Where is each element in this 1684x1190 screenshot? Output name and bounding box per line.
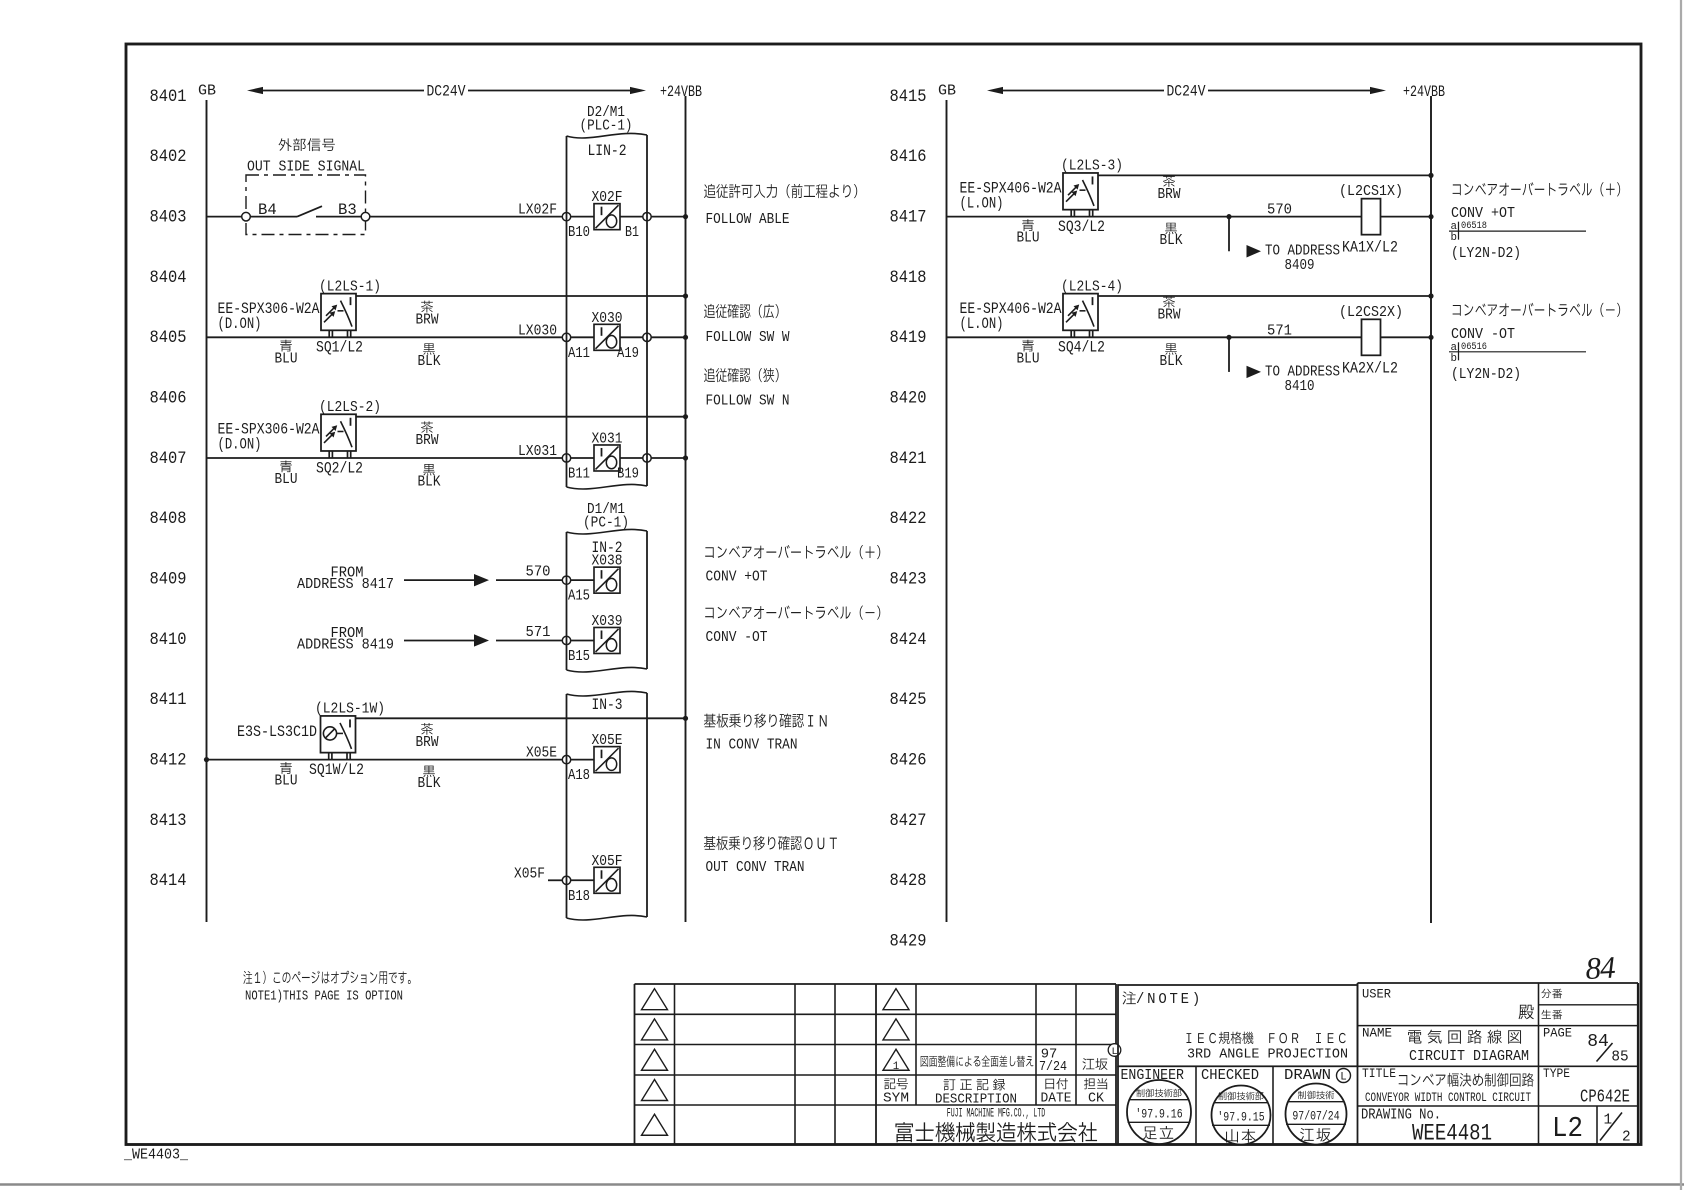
svg-text:DC24V: DC24V [1167,83,1207,101]
relay coil KA2X/L2 (L2CS2X) [1362,319,1381,355]
revision tables top edge [635,983,1117,985]
description 追従確認(広) [704,304,779,318]
junction upper wire on rail [683,414,688,419]
svg-text:FOLLOW SW W: FOLLOW SW W [706,329,790,346]
contact B4-B3 outside signal [242,201,370,221]
svg-text:B10: B10 [568,224,590,241]
stamp DRAWN 江坂 [1286,1084,1347,1145]
signature block outline [1118,1066,1358,1144]
header 記号 SYM [884,1078,908,1089]
svg-text:BLK: BLK [418,775,441,792]
svg-text:(LY2N-D2): (LY2N-D2) [1451,245,1521,262]
description 基板乗り移り確認OUT [704,836,837,850]
svg-text:L: L [1111,1047,1117,1058]
svg-text:NAME: NAME [1362,1026,1392,1041]
svg-text:DATE: DATE [1041,1092,1072,1107]
wire color label brown row 8412 [421,723,433,735]
scan artifact right edge grey line [1680,0,1682,1190]
wire 8407 GB rail to sensor [207,457,563,459]
svg-text:CP642E: CP642E [1580,1088,1630,1108]
svg-text:X05E: X05E [526,745,557,762]
wire coil to +24VBB rail 8417 [1381,216,1432,218]
svg-text:A19: A19 [617,345,639,362]
wire color label blue 青 BLU row 8412 [280,762,292,774]
wire 8412 GB rail to sensor with junction dot [204,757,209,762]
svg-text:BLK: BLK [1160,353,1183,370]
svg-text:8428: 8428 [890,872,927,891]
wire 8405 GB rail to sensor [207,336,563,338]
right ladder +24VBB rail [1430,96,1432,923]
description 追従許可入力(前工程より) [704,184,857,198]
svg-text:IN-2: IN-2 [592,539,623,557]
svg-text:8410: 8410 [150,631,187,650]
photo sensor SQ1W/L2 (L2LS-1W) E3S type [321,716,356,760]
svg-text:X02F: X02F [592,189,623,206]
svg-text:b: b [1451,232,1457,244]
svg-text:B3: B3 [338,201,357,219]
svg-text:(D.ON): (D.ON) [218,436,262,454]
PLC I/O point X02F [562,189,651,241]
svg-text:8417: 8417 [890,208,927,227]
svg-text:8427: 8427 [890,812,927,831]
svg-text:DESCRIPTION: DESCRIPTION [935,1093,1017,1108]
wire color label brown right 8419 [1163,296,1175,308]
svg-text:(L2CS1X): (L2CS1X) [1339,183,1403,200]
right revision table verticals [916,984,1116,1145]
svg-text:(L2CS2X): (L2CS2X) [1339,304,1403,321]
svg-text:GB: GB [198,83,216,100]
wire 8405 PLC right pin to rail [651,336,686,338]
outside signal dashed enclosure [246,175,366,235]
svg-text:8429: 8429 [890,932,927,951]
svg-text:A18: A18 [568,767,590,784]
svg-text:GB: GB [938,83,956,100]
svg-text:CIRCUIT DIAGRAM: CIRCUIT DIAGRAM [1409,1049,1529,1065]
svg-text:DRAWN: DRAWN [1284,1068,1331,1084]
svg-text:FUJI MACHINE MFG.CO., LTD: FUJI MACHINE MFG.CO., LTD [947,1107,1046,1121]
photo sensor SQ2/L2 (L2LS-2) [321,414,356,458]
scan artifact bottom grey line [0,1183,1684,1185]
junction upper wire right 8419 [1428,293,1433,298]
wire color label black right 8419 [1165,343,1177,354]
wire 8403 from GB rail to outside-signal contact [207,216,243,218]
svg-text:SQ4/L2: SQ4/L2 [1058,339,1105,357]
svg-text:+24VBB: +24VBB [660,83,702,101]
svg-text:A15: A15 [568,588,590,605]
svg-text:8408: 8408 [150,510,187,529]
svg-text:SQ2/L2: SQ2/L2 [316,459,363,477]
svg-text:(L2LS-1W): (L2LS-1W) [315,701,385,718]
title block outline [1358,983,1639,1145]
revision mark triangle left table row 4 [642,1080,668,1101]
circled L mark drawn [1337,1069,1351,1083]
svg-text:BRW: BRW [1158,186,1181,203]
revision mark triangle left table row 1 [642,989,668,1010]
handwritten page number 84 [1585,949,1617,986]
svg-text:8409: 8409 [150,570,187,589]
svg-text:8406: 8406 [150,389,187,408]
svg-text:8424: 8424 [890,631,927,650]
svg-text:(L2LS-4): (L2LS-4) [1061,278,1123,295]
junction on rail right 8417 [1428,214,1433,219]
svg-text:8412: 8412 [150,751,187,770]
description コンベアオーバートラベル(-) left [705,605,880,619]
svg-text:570: 570 [526,563,551,580]
svg-text:X05F: X05F [514,865,545,882]
svg-text:8405: 8405 [150,329,187,348]
svg-text:3RD ANGLE PROJECTION: 3RD ANGLE PROJECTION [1187,1048,1348,1063]
svg-text:LIN-2: LIN-2 [588,142,627,160]
right ladder GB power rail [946,100,948,922]
PLC I/O point X039 [562,613,622,665]
svg-text:_WE4403_: _WE4403_ [123,1147,189,1164]
svg-text:CONV +OT: CONV +OT [706,569,768,586]
svg-text:CHECKED: CHECKED [1201,1068,1259,1084]
note label 注/NOTE) [1123,991,1136,1004]
wire 8419 GB rail to sensor [947,336,1362,338]
svg-text:(PC-1): (PC-1) [583,515,629,532]
svg-text:8410: 8410 [1285,378,1315,395]
svg-text:FOLLOW ABLE: FOLLOW ABLE [706,211,790,228]
revision mark triangle 1 right table row 3 [883,1049,909,1070]
svg-text:8401: 8401 [150,88,187,107]
svg-text:L: L [1340,1072,1346,1084]
svg-text:TITLE: TITLE [1362,1066,1396,1081]
svg-text:OUT CONV TRAN: OUT CONV TRAN [706,859,805,876]
junction on +24VBB rail 8403 [683,214,688,219]
svg-text:571: 571 [1267,322,1292,339]
svg-text:BRW: BRW [416,734,439,751]
title コンベア幅決め制御回路 [1399,1073,1534,1087]
svg-text:2: 2 [1622,1130,1631,1146]
wire 8417 GB rail to sensor [947,216,1362,218]
svg-text:8421: 8421 [890,450,927,469]
junction and drop to address reference 8409 [1226,214,1261,257]
sensor top wire to +24VBB rail right 8417 [1098,174,1431,176]
svg-text:(L.ON): (L.ON) [960,194,1004,212]
junction and drop to address reference 8410 [1226,335,1261,378]
left revision table verticals [635,984,877,1145]
svg-text:8403: 8403 [150,208,187,227]
svg-text:X05F: X05F [592,853,623,870]
revision mark triangle right table row 2 [883,1019,909,1040]
wire color label blue 青 BLU [280,340,292,352]
label 生番 [1541,1010,1562,1020]
label 外部信号 [279,138,335,151]
page number 84/85 [1587,1032,1628,1066]
svg-text:WEE4481: WEE4481 [1412,1122,1492,1148]
header 訂正記録 DESCRIPTION [944,1079,1005,1091]
svg-text:KA2X/L2: KA2X/L2 [1342,359,1398,377]
wire 8407 PLC right pin to rail [651,457,686,459]
svg-text:BLU: BLU [275,773,298,790]
svg-text:X05E: X05E [592,732,623,749]
svg-text:NOTE1)THIS PAGE IS OPTION: NOTE1)THIS PAGE IS OPTION [245,989,403,1005]
label 分番 [1541,989,1562,999]
revision row 3 CK 江坂 [1082,1058,1107,1070]
svg-text:8416: 8416 [890,148,927,167]
svg-text:BLK: BLK [418,473,441,490]
stamp ENGINEER 足立 [1127,1080,1191,1144]
svg-text:IN-3: IN-3 [592,696,623,714]
svg-text:BRW: BRW [416,432,439,449]
contact cross reference a/b 06516 [1449,342,1586,365]
wire 8403 contact to PLC input [370,216,563,218]
sensor top wire to +24VBB rail [356,295,686,297]
wire color label brown 茶 BRW [421,301,433,313]
photo sensor SQ3/L2 (L2LS-3) [1063,173,1098,217]
arrow from address 8419 [404,634,563,646]
svg-text:B18: B18 [568,888,590,905]
svg-text:(L2LS-1): (L2LS-1) [319,278,381,295]
svg-text:(PLC-1): (PLC-1) [580,118,633,135]
wire color label black row 8412 [423,766,435,777]
PLC module IN-3 outline [567,691,648,920]
note 注1 このページはオプション用です [243,971,410,984]
junction upper wire on rail [683,293,688,298]
svg-text:B4: B4 [258,201,277,219]
header 担当 CK [1084,1078,1107,1089]
circled L mark revision row 3 [1108,1044,1121,1057]
svg-text:CONV -OT: CONV -OT [706,629,768,646]
description CONV -OT [1453,303,1621,317]
description 追従確認(狭) [704,368,779,382]
svg-text:570: 570 [1267,202,1292,219]
svg-text:8425: 8425 [890,691,927,710]
relay coil KA1X/L2 (L2CS1X) [1362,199,1381,235]
junction upper wire 8412 [683,716,688,721]
DC24V span arrow left ladder [247,83,646,101]
revision row 3 description 図面整備による全面差し替え [921,1055,1034,1067]
photo sensor SQ1/L2 (L2LS-1) [321,294,356,338]
note IEC規格機 FOR IEC [1186,1032,1345,1044]
svg-text:B15: B15 [568,648,590,665]
svg-text:8402: 8402 [150,148,187,167]
svg-text:(L2LS-2): (L2LS-2) [319,399,381,416]
svg-text:X031: X031 [592,430,623,447]
PLC I/O point X05F [562,853,622,905]
wire color label blue right 8417 [1022,219,1034,231]
svg-text:85: 85 [1611,1050,1628,1066]
svg-text:BLK: BLK [418,353,441,370]
svg-text:BRW: BRW [1158,307,1181,324]
svg-text:ADDRESS 8417: ADDRESS 8417 [297,576,394,593]
wire color label black right 8417 [1165,223,1177,234]
svg-text:8420: 8420 [890,389,927,408]
svg-text:PAGE: PAGE [1543,1026,1572,1041]
svg-text:L2: L2 [1552,1112,1583,1145]
svg-text:CK: CK [1088,1092,1105,1107]
svg-text:'97.9.15: '97.9.15 [1217,1110,1264,1125]
svg-text:SQ1W/L2: SQ1W/L2 [309,761,364,779]
svg-text:A11: A11 [568,345,590,362]
svg-text:BLK: BLK [1160,232,1183,249]
wire coil to +24VBB rail 8419 [1381,336,1432,338]
note box outline [1118,985,1358,1066]
svg-text:BLU: BLU [275,350,298,367]
svg-text:CONV -OT: CONV -OT [1451,326,1515,343]
svg-text:8415: 8415 [890,88,927,107]
svg-text:(L.ON): (L.ON) [960,315,1004,333]
wire color label black 黒 BLK [423,343,435,354]
svg-text:+24VBB: +24VBB [1403,83,1445,101]
svg-text:CONV +OT: CONV +OT [1451,205,1515,222]
svg-text:06518: 06518 [1461,221,1487,232]
svg-text:(LY2N-D2): (LY2N-D2) [1451,366,1521,383]
svg-text:IN CONV TRAN: IN CONV TRAN [706,737,798,754]
svg-text:8414: 8414 [150,872,187,891]
company name 富士機械製造株式会社 [895,1122,1097,1142]
svg-text:8426: 8426 [890,751,927,770]
junction on rail 8405 [683,335,688,340]
revision mark triangle left table row 3 [642,1049,668,1070]
sensor top wire to +24VBB rail [356,416,686,418]
svg-text:8422: 8422 [890,510,927,529]
wire color label blue right 8419 [1022,340,1034,352]
wire color label blue 青 BLU [280,460,292,472]
svg-text:KA1X/L2: KA1X/L2 [1342,239,1398,257]
PLC module D1/M1 PC-1 IN-2 outline [567,529,648,672]
svg-text:ADDRESS 8419: ADDRESS 8419 [297,636,394,653]
svg-text:06516: 06516 [1461,342,1487,353]
svg-text:FOLLOW SW N: FOLLOW SW N [706,393,790,410]
revision table horizontal lines [635,1014,1117,1105]
svg-text:B11: B11 [568,465,590,482]
svg-text:BLU: BLU [275,471,298,488]
svg-text:/NOTE): /NOTE) [1136,991,1203,1008]
description CONV +OT [1453,182,1621,196]
svg-text:SYM: SYM [883,1092,909,1107]
svg-text:571: 571 [526,624,551,641]
contact cross reference a/b 06518 [1449,221,1586,244]
svg-text:TYPE: TYPE [1543,1066,1570,1081]
svg-text:LX02F: LX02F [518,202,557,219]
svg-text:X039: X039 [592,613,623,630]
svg-text:USER: USER [1362,988,1391,1002]
arrow from address 8417 [404,574,563,586]
PLC I/O point X031 [562,430,651,482]
svg-text:8407: 8407 [150,450,187,469]
wire stub X05F [548,879,563,881]
svg-text:8409: 8409 [1285,257,1315,274]
svg-text:X030: X030 [592,310,623,327]
wire color label brown right 8417 [1163,175,1175,187]
junction upper wire right 8417 [1428,173,1433,178]
PLC I/O point X030 [562,310,651,362]
junction on rail 8407 [683,455,688,460]
description 基板乗り移り確認IN [704,713,827,727]
svg-text:8419: 8419 [890,329,927,348]
svg-text:8404: 8404 [150,269,187,288]
svg-text:(L2LS-3): (L2LS-3) [1061,158,1123,175]
revision mark triangle left table row 2 [642,1019,668,1040]
left ladder +24VBB rail [685,96,687,922]
wire 8403 PLC right pin to +24VBB rail [651,216,686,218]
svg-text:1: 1 [893,1061,899,1073]
svg-text:BLU: BLU [1017,350,1040,367]
svg-text:BLU: BLU [1017,230,1040,247]
svg-text:7/24: 7/24 [1039,1059,1067,1075]
svg-text:SQ3/L2: SQ3/L2 [1058,218,1105,236]
sensor top wire to +24VBB rail right 8419 [1098,295,1431,297]
revision mark triangle right table row 1 [883,989,909,1010]
sensor top wire 8412 to +24VBB rail [356,717,686,719]
svg-text:B1: B1 [625,224,639,241]
svg-text:8413: 8413 [150,812,187,831]
sheet 1/2 [1600,1113,1631,1146]
svg-text:OUT SIDE SIGNAL: OUT SIDE SIGNAL [247,159,365,176]
revision mark triangle left table row 5 [642,1114,668,1135]
svg-text:'97.9.16: '97.9.16 [1135,1107,1182,1122]
PLC I/O point X038 [562,553,622,605]
svg-text:b: b [1451,353,1457,365]
svg-text:LX031: LX031 [518,443,557,460]
stamp CHECKED 山本 [1212,1086,1271,1145]
svg-text:8418: 8418 [890,269,927,288]
svg-text:DC24V: DC24V [427,83,467,101]
header 日付 DATE [1045,1078,1068,1089]
svg-text:CONVEYOR WIDTH CONTROL CIRCUIT: CONVEYOR WIDTH CONTROL CIRCUIT [1365,1090,1531,1105]
DC24V span arrow right ladder [987,83,1386,101]
junction on rail right 8419 [1428,335,1433,340]
svg-text:8423: 8423 [890,570,927,589]
svg-text:(D.ON): (D.ON) [218,315,262,333]
PLC I/O point X05E [562,732,622,784]
left ladder GB power rail [206,100,208,922]
svg-text:SQ1/L2: SQ1/L2 [316,339,363,357]
svg-text:LX030: LX030 [518,322,557,339]
wire color label brown 茶 BRW [421,421,433,433]
wire color label black 黒 BLK [423,464,435,475]
svg-text:B19: B19 [617,465,639,482]
PLC module D2/M1 PLC-1 LIN-2 outline [567,133,648,489]
svg-text:84: 84 [1585,949,1617,986]
title 電気回路線図 [1408,1030,1521,1044]
svg-text:E3S-LS3C1D: E3S-LS3C1D [237,723,317,741]
svg-text:84: 84 [1587,1032,1609,1052]
svg-text:8411: 8411 [150,691,187,710]
svg-text:BRW: BRW [416,312,439,329]
description コンベアオーバートラベル(+) left [705,545,880,559]
svg-text:97/07/24: 97/07/24 [1292,1109,1339,1124]
label 殿 [1519,1005,1534,1020]
photo sensor SQ4/L2 (L2LS-4) [1063,294,1098,338]
